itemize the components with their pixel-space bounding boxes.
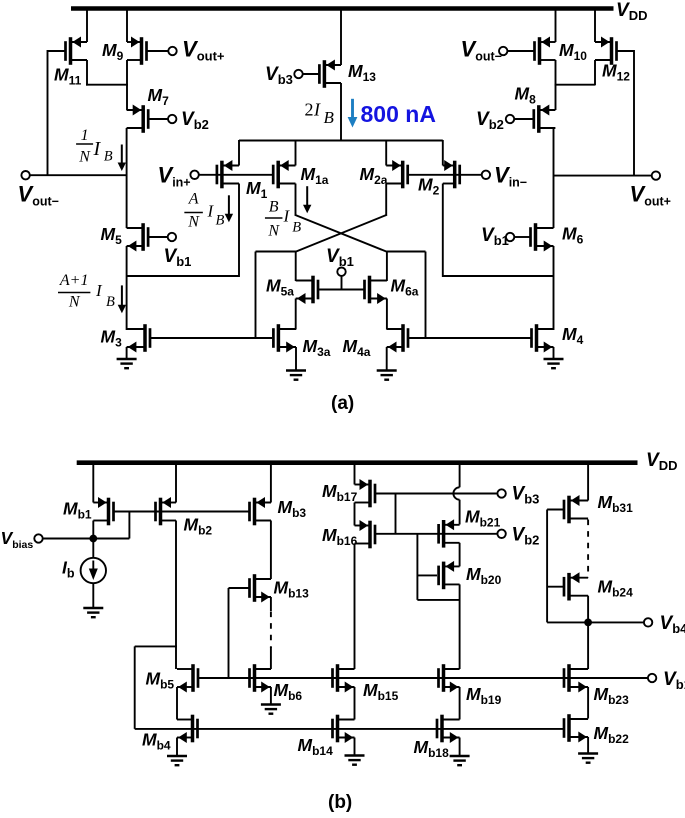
transistor Mb18	[436, 715, 460, 743]
svg-text:Vb1: Vb1	[481, 225, 509, 248]
svg-text:Mb17: Mb17	[322, 481, 358, 504]
terminal Vb1 (center)	[337, 268, 345, 276]
wire M4 source to ground	[553, 347, 555, 359]
transistor M6a	[363, 276, 387, 304]
wire M9 source to VDD	[126, 7, 128, 42]
svg-text:Vout+: Vout+	[182, 37, 225, 64]
wire M2 source up	[442, 140, 444, 166]
svg-text:Vb1: Vb1	[663, 669, 685, 692]
wire Mb31 gate lead	[547, 509, 563, 511]
svg-text:Mb31: Mb31	[598, 492, 634, 515]
transistor Mb19	[437, 664, 459, 692]
wire Mb3 drain down to Mb13 drain	[270, 521, 272, 580]
wire M7 gate lead	[149, 118, 168, 120]
wire M5 gate lead	[149, 236, 168, 238]
wire M4a gate tap vertical	[425, 252, 427, 339]
wire M4a source to ground	[386, 347, 388, 371]
svg-text:Mb16: Mb16	[322, 525, 358, 548]
wire M2 drain to right rail	[443, 275, 554, 277]
wire Mb18 source to ground	[459, 738, 461, 757]
wire tail bus	[239, 140, 443, 142]
wire Vb1 center stem	[341, 276, 343, 290]
current arrow 1/N IB	[121, 145, 123, 164]
svg-text:I: I	[207, 201, 215, 220]
wire node M10/M12 drains	[555, 84, 596, 86]
wire Mb4 gate bracket vertical	[134, 646, 136, 729]
transistor M7	[127, 105, 150, 133]
junction dot Vbias	[89, 535, 97, 543]
ground Mb4	[167, 755, 187, 757]
svg-text:M7: M7	[148, 85, 170, 108]
transistor M9	[127, 37, 148, 65]
wire Mb3 source to VDD	[270, 461, 272, 503]
svg-text:I: I	[283, 207, 291, 226]
transistor M2	[443, 160, 461, 188]
wire junction to M7 source	[126, 84, 128, 110]
wire M2/M2a gates to Vin-	[408, 174, 482, 176]
ground Ib	[83, 607, 103, 609]
svg-text:M3a: M3a	[303, 336, 331, 359]
transistor M1a	[272, 160, 296, 188]
svg-text:VDD: VDD	[646, 450, 677, 473]
svg-text:Mb2: Mb2	[184, 515, 213, 538]
transistor Mb5	[177, 664, 199, 692]
svg-text:(a): (a)	[331, 393, 354, 414]
transistor M5a	[296, 276, 320, 304]
svg-text:Mb4: Mb4	[142, 730, 171, 753]
transistor Mb15	[331, 664, 354, 692]
terminal Vout- (top)	[499, 47, 507, 55]
wire M5 source to node A	[126, 246, 128, 330]
svg-text:M1: M1	[246, 178, 268, 201]
terminal Vout+ (top)	[168, 47, 176, 55]
wire Mb13 gate tap down to row1 gate line	[228, 588, 230, 678]
current arrow A+1/N IB	[121, 285, 123, 305]
wire Mb21 drain to Mb20 source	[459, 543, 461, 567]
wire M9 gate lead	[147, 50, 169, 52]
svg-text:M6: M6	[562, 224, 584, 247]
transistor M11	[64, 37, 87, 65]
wire Mb20 drain down to Mb19 drain	[459, 584, 461, 669]
svg-text:Mb19: Mb19	[466, 684, 502, 707]
svg-text:Mb14: Mb14	[298, 735, 334, 758]
transistor Mb31	[563, 495, 588, 523]
svg-text:N: N	[78, 149, 91, 166]
transistor M3	[127, 324, 152, 352]
wire M8 gate lead	[514, 118, 533, 120]
svg-text:B: B	[292, 220, 301, 236]
wire Vout+ terminal	[554, 175, 652, 177]
wire M6a drain up to node B2	[386, 252, 388, 282]
svg-text:Vout−: Vout−	[18, 182, 59, 209]
svg-text:M4: M4	[562, 324, 584, 347]
wire Mb14 source to ground	[354, 738, 356, 756]
wire Mb19 source to Mb18 drain	[459, 687, 461, 720]
svg-text:Vout−: Vout−	[461, 37, 502, 64]
svg-text:Mb24: Mb24	[598, 577, 634, 600]
terminal Vout+ (right)	[652, 171, 660, 179]
wire Mb17 drain to Mb16 source	[354, 503, 356, 526]
transistor Mb23	[563, 664, 588, 692]
svg-text:Mb1: Mb1	[63, 499, 92, 522]
svg-text:Vout+: Vout+	[630, 182, 671, 209]
wire M13 gate lead	[303, 73, 319, 75]
wire M6 gate lead	[514, 236, 530, 238]
wire M11 source to VDD	[86, 7, 88, 42]
transistor Mb1	[93, 497, 115, 525]
transistor Mb4	[177, 715, 199, 743]
wire M10 source to VDD	[555, 7, 557, 42]
svg-text:M1a: M1a	[301, 164, 329, 187]
ground M3	[117, 358, 137, 360]
wire M2a source up	[385, 140, 387, 166]
terminal Vbias	[34, 534, 42, 542]
svg-text:Mb20: Mb20	[466, 564, 502, 587]
svg-text:Vb2: Vb2	[476, 109, 504, 132]
terminal Vin+	[190, 171, 198, 179]
wire junction to M8 source	[555, 84, 557, 110]
wire row2 gate line	[135, 728, 564, 730]
wire Vb4 line	[547, 621, 644, 623]
svg-text:B: B	[106, 294, 115, 310]
VDD rail (b)	[77, 460, 638, 465]
svg-text:800 nA: 800 nA	[361, 101, 436, 127]
svg-text:1: 1	[81, 127, 89, 144]
svg-text:Vb2: Vb2	[181, 109, 209, 132]
wire node B1 down to M5a drain	[295, 252, 297, 282]
svg-text:Vb3: Vb3	[265, 64, 293, 87]
transistor Mb17	[355, 479, 377, 507]
wire Ib to ground	[92, 583, 94, 608]
current arrow 800nA (blue)	[351, 99, 354, 118]
wire M1a drain down	[295, 184, 297, 216]
wire node B2 to M4a gate tap	[386, 251, 425, 253]
wire M5a source to M3a drain	[295, 299, 297, 330]
wire Mb24 gate lead	[547, 586, 563, 588]
wire M3a gate tap vertical	[255, 252, 257, 339]
transistor M4	[530, 324, 553, 352]
transistor Mb16	[355, 520, 377, 548]
wire Vb4 node down to Mb23 drain	[587, 622, 589, 669]
svg-text:I: I	[313, 100, 321, 120]
transistor Mb3	[248, 497, 271, 525]
wire M7 drain through Vout- node to M5 drain	[126, 128, 128, 228]
wire Vb2 line	[376, 533, 498, 535]
wire M1 source up	[238, 140, 240, 166]
wire node B1 to M3a gate tap	[256, 251, 297, 253]
svg-text:I: I	[93, 138, 102, 160]
wire Vbias line	[43, 538, 130, 540]
transistor M1	[216, 160, 239, 188]
terminal Vb1 (left)	[168, 233, 176, 241]
svg-text:M13: M13	[348, 61, 376, 84]
wire M10 gate lead	[507, 50, 533, 52]
wire node A to M1 drain	[127, 275, 239, 277]
svg-text:M8: M8	[515, 84, 537, 107]
transistor M4a	[387, 324, 410, 352]
transistor Mb6	[248, 664, 271, 692]
ground M4	[544, 358, 564, 360]
wire M2a drain down	[385, 184, 387, 216]
svg-text:B: B	[269, 198, 279, 215]
svg-text:M6a: M6a	[391, 276, 419, 299]
wire Mb1 source to VDD	[92, 461, 94, 503]
svg-text:M9: M9	[102, 40, 124, 63]
svg-text:M2: M2	[418, 175, 440, 198]
wire M3a source to ground	[295, 347, 297, 371]
wire Mb20 gate lead	[417, 574, 437, 576]
svg-text:Vb1: Vb1	[164, 246, 192, 269]
wire Mb22 source to ground	[587, 737, 589, 754]
wire M8 drain through Vout+ node to M6 drain	[553, 128, 555, 228]
svg-text:M2a: M2a	[360, 164, 388, 187]
wire dashed to Mb6 drain (solid)	[270, 647, 272, 669]
wire M13 drain to tail bus	[340, 83, 342, 141]
transistor M8	[532, 105, 555, 133]
svg-text:N: N	[187, 214, 200, 231]
ground Mb22	[578, 752, 598, 754]
svg-text:Mb6: Mb6	[274, 680, 303, 703]
wire Vout- terminal	[30, 174, 127, 176]
svg-text:A+1: A+1	[59, 272, 89, 289]
svg-text:Mb13: Mb13	[274, 578, 310, 601]
wire Mb16 drain down to Mb15 drain	[354, 544, 356, 670]
transistor M5	[127, 223, 150, 251]
wire node M11/M9 drains	[86, 84, 128, 86]
svg-text:Mb15: Mb15	[363, 680, 399, 703]
wire M11 drain down	[86, 60, 88, 86]
transistor M13	[318, 60, 341, 88]
svg-text:VDD: VDD	[616, 0, 647, 23]
svg-text:Vb4: Vb4	[660, 613, 685, 636]
svg-text:M10: M10	[559, 40, 587, 63]
wire Mb1 gate tap down to Vbias	[128, 512, 130, 539]
wire Vin+ to M1/M1a gates	[199, 174, 274, 176]
svg-text:M4a: M4a	[343, 336, 371, 359]
terminal Vb3 (b)	[497, 489, 505, 497]
svg-text:M5a: M5a	[266, 276, 294, 299]
terminal Vb2 (left)	[168, 115, 176, 123]
wire M4/M4a gate line	[409, 337, 531, 339]
terminal Vb3 (a)	[294, 70, 302, 78]
wire Mb23 source to Mb22 drain	[587, 687, 589, 719]
wire Mb6 source to ground	[270, 687, 272, 705]
svg-text:N: N	[267, 222, 280, 239]
svg-text:B: B	[324, 108, 335, 127]
current source Ib	[92, 539, 94, 559]
wire Mb13 to Mb6 (dashed)	[270, 612, 272, 649]
svg-text:M3: M3	[101, 327, 123, 350]
svg-text:Vin+: Vin+	[158, 163, 191, 190]
wire M1 drain down	[238, 184, 240, 278]
wire M2a drain diagonal to node B1	[295, 215, 387, 252]
transistor Mb20	[437, 561, 459, 589]
transistor M2a	[386, 160, 409, 188]
svg-text:M11: M11	[54, 65, 82, 88]
svg-text:B: B	[104, 149, 113, 165]
terminal Vin-	[482, 171, 490, 179]
ground Mb6	[261, 703, 281, 705]
wire Mb17 source to VDD	[354, 461, 356, 485]
wire Mb13 source down (solid)	[270, 597, 272, 611]
svg-text:M5: M5	[101, 224, 123, 247]
svg-text:Ib: Ib	[62, 558, 75, 581]
wire Mb13 gate lead	[229, 587, 251, 589]
svg-text:Mb3: Mb3	[278, 497, 307, 520]
wire M10 drain down	[555, 60, 557, 86]
terminal Vout- (left)	[21, 171, 29, 179]
wire Mb31/Mb24 gate bracket	[546, 510, 548, 623]
svg-text:Mb21: Mb21	[465, 507, 501, 530]
svg-text:B: B	[216, 213, 225, 229]
terminal Vb1 (right)	[506, 233, 514, 241]
transistor Mb2	[154, 497, 176, 525]
wire row1 gate line to Vb1	[199, 677, 648, 679]
wire M13 source to VDD	[340, 7, 342, 65]
svg-text:(b): (b)	[328, 792, 352, 813]
wire M2 drain down	[442, 184, 444, 278]
wire Mb31 source to VDD	[587, 461, 589, 501]
wire Mb1-Mb2-Mb3 gate line	[114, 511, 249, 513]
wire Vb3-Vb2 tie	[395, 494, 397, 534]
current arrow A/N IB	[228, 195, 230, 215]
transistor M12	[595, 37, 618, 65]
transistor Mb21	[437, 519, 459, 547]
wire Mb24 drain to Vb4 node	[587, 596, 589, 623]
svg-text:2: 2	[305, 100, 314, 120]
svg-text:N: N	[68, 294, 81, 311]
wire Mb31 to Mb24 (dashed)	[587, 520, 589, 578]
wire Mb4 gate bracket top	[135, 645, 177, 647]
VDD rail (a)	[71, 6, 614, 11]
ground M4a	[377, 369, 397, 371]
wire M1a source up	[295, 140, 297, 166]
svg-text:M12: M12	[602, 61, 630, 84]
transistor Mb24	[563, 572, 588, 600]
wire M11 gate to Vout- node	[47, 50, 49, 176]
ground Mb18	[450, 755, 470, 757]
svg-text:Vb1: Vb1	[326, 246, 354, 269]
svg-text:Mb23: Mb23	[594, 684, 630, 707]
wire M12 drain down	[594, 60, 596, 85]
transistor M6	[529, 223, 553, 251]
wire M5a/M6a gate lead	[319, 289, 364, 291]
wire Mb20 drain loop bottom	[417, 599, 459, 601]
wire M1a drain diagonal to node B2	[295, 215, 388, 252]
wire M3 source to ground	[126, 347, 128, 359]
wire Mb21 source to VDD (with hop over Vb3 line)	[459, 461, 461, 487]
wire M3/M3a gate line	[151, 337, 272, 339]
terminal Vb1 (b)	[648, 674, 656, 682]
svg-text:A: A	[188, 191, 199, 208]
svg-text:Vin−: Vin−	[494, 163, 527, 190]
wire Mb2 drain down to Mb5 drain	[175, 521, 177, 670]
transistor Mb22	[563, 714, 588, 742]
wire Mb4 source to ground	[176, 738, 178, 757]
wire Mb15 source to Mb14 drain	[354, 687, 356, 720]
svg-text:Vb3: Vb3	[512, 484, 540, 507]
wire M6a source to M4a drain	[386, 299, 388, 330]
wire M12 gate lead	[617, 50, 634, 52]
svg-text:I: I	[95, 281, 103, 300]
terminal Vb2 (right)	[506, 115, 514, 123]
transistor M10	[533, 37, 555, 65]
wire Vb3 line	[376, 493, 498, 495]
transistor M3a	[272, 324, 296, 352]
svg-text:Mb22: Mb22	[594, 723, 630, 746]
transistor Mb14	[331, 715, 354, 743]
wire M9 drain down	[126, 60, 128, 85]
wire M11 gate lead	[48, 50, 66, 52]
svg-text:Mb5: Mb5	[146, 669, 175, 692]
svg-text:Vbias: Vbias	[1, 528, 34, 551]
wire Mb1 drain to Vbias node	[92, 521, 94, 539]
wire Mb2 source to VDD	[175, 461, 177, 503]
terminal Vb2 (b)	[497, 530, 505, 538]
transistor Mb13	[248, 574, 271, 602]
wire Mb5 drain... Mb5 source to Mb4 drain	[176, 687, 178, 720]
wire Mb20 gate/drain tap vertical	[416, 534, 418, 600]
current arrow B/N IB	[306, 186, 308, 206]
wire M6 source to M4 drain	[553, 246, 555, 330]
terminal Vb4	[644, 618, 652, 626]
wire M12 source to VDD	[594, 7, 596, 42]
ground Mb14	[345, 754, 365, 756]
junction dot Vb4	[584, 619, 592, 627]
wire M12 gate to Vout+ node	[633, 50, 635, 177]
svg-text:Vb2: Vb2	[512, 525, 540, 548]
ground M3a	[286, 369, 306, 371]
